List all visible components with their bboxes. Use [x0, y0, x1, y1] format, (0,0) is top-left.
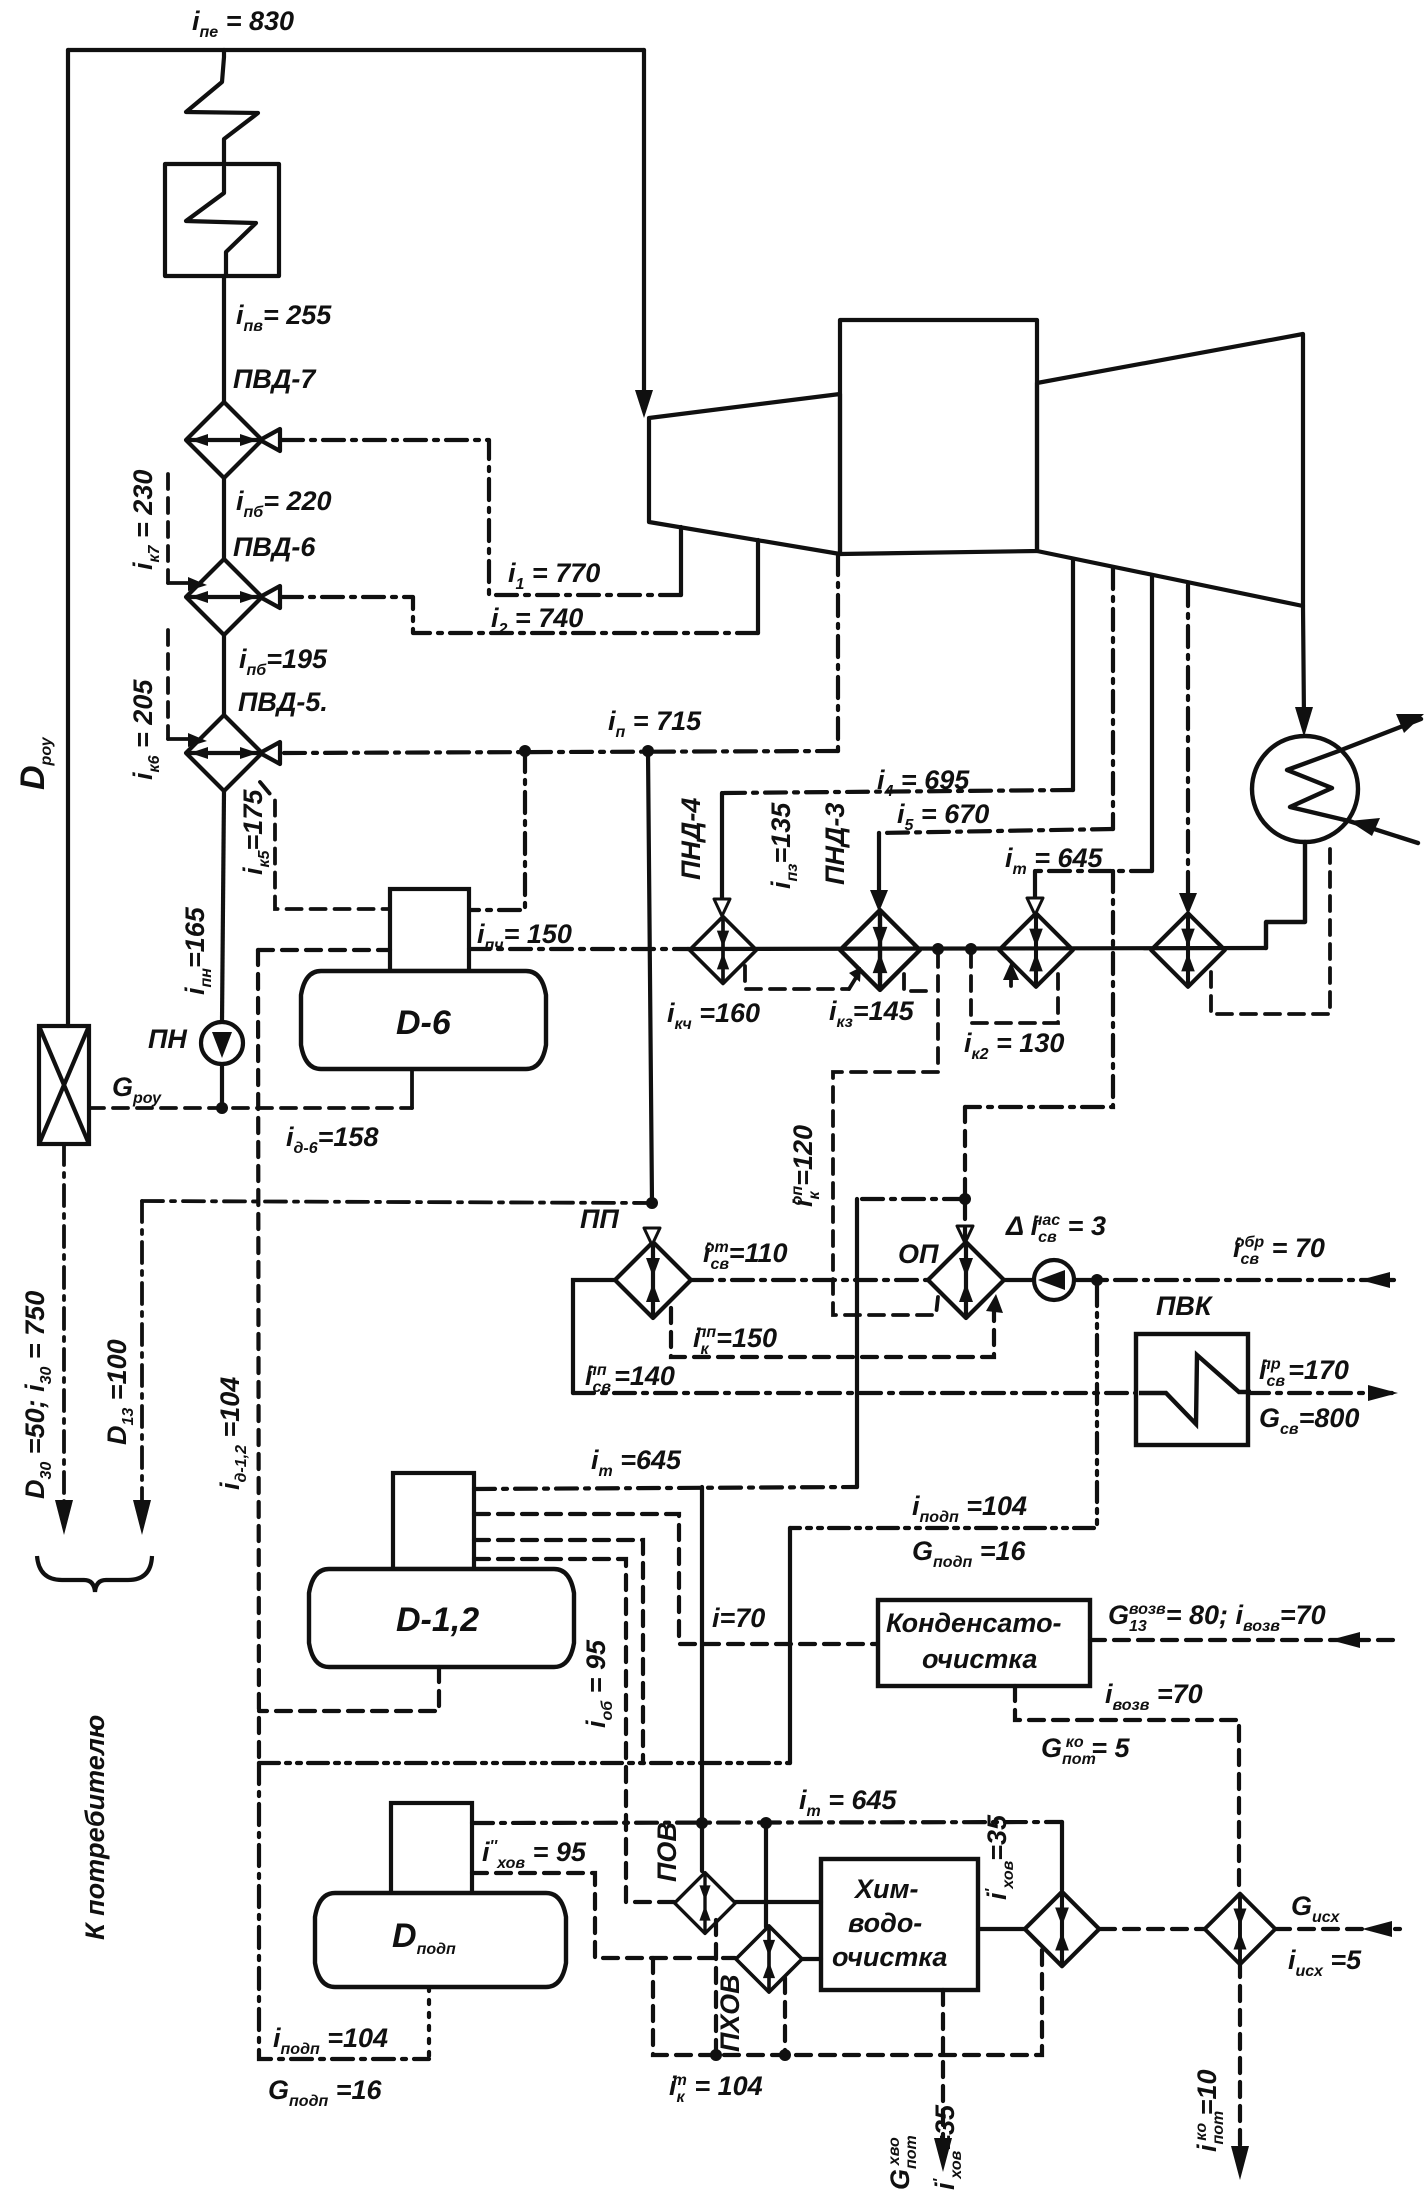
svg-text:ПВД-5.: ПВД-5. — [238, 687, 328, 717]
arrow: steam into turbine — [635, 390, 653, 418]
condensate from condenser to main line — [1266, 842, 1305, 948]
svg-text:iсвпр =170: iсвпр =170 — [1259, 1355, 1349, 1390]
condensate line to Д-1,2 branch — [258, 948, 390, 952]
svg-text:iпотко =10: iпотко =10 — [1192, 2070, 1227, 2153]
raw water line to ИСХ heater — [1100, 1927, 1205, 1931]
drain ПВД-5 to Д-6 iк5=175 — [260, 782, 388, 909]
superheater zigzag inside boiler — [186, 167, 256, 276]
node: steam to ПХОВ — [760, 1817, 772, 1829]
network water ПП to ПВК iсв пп=140 — [573, 1280, 615, 1393]
ОП lower network heater — [928, 1242, 1004, 1318]
node: ОП steam junction — [959, 1193, 971, 1205]
wire: steam into ПНД-4 — [720, 793, 724, 905]
wire: steam into ПНД-3 — [877, 833, 881, 898]
steam branch down to ПОВ — [700, 1487, 704, 1818]
node: iп=715 to ПП — [642, 745, 654, 757]
network water ПП-ОП iсв от=110 — [691, 1278, 928, 1282]
arrow into ВС heater — [1179, 893, 1197, 915]
Дподп bottom outlet — [427, 1987, 431, 2059]
extraction 6 wire iт=645 — [1150, 577, 1154, 871]
Дподп deaerator column — [391, 1803, 472, 1895]
network pump — [1034, 1260, 1074, 1300]
svg-text:очистка: очистка — [832, 1942, 947, 1972]
drains header iк т=104 — [653, 1950, 1042, 2055]
node: makeup junction — [1091, 1274, 1103, 1286]
condensate i=70 from очистка to Д-1,2 — [474, 1514, 878, 1644]
boiler economizer zigzag — [186, 50, 258, 164]
Д-6 deaerator column — [390, 889, 469, 971]
svg-text:Gсв=800: Gсв=800 — [1259, 1403, 1359, 1438]
Д-6 deaerator tank — [301, 971, 546, 1069]
ПВД-6 heater — [186, 559, 280, 635]
svg-text:ПНД-3: ПНД-3 — [820, 803, 850, 885]
wire: feedwater ПВД-5 to pump ПН — [222, 791, 224, 1022]
ПВД-5 heater — [186, 715, 280, 791]
circulating water path through condenser — [1287, 719, 1421, 843]
condensate riser iд-1,2=104 — [258, 950, 259, 1763]
wire: left feedwater downcomer to РОУ — [66, 50, 70, 1026]
drain ПНД-3 iкз=145 — [904, 974, 934, 991]
svg-text:Конденсато-: Конденсато- — [886, 1608, 1062, 1638]
node: drain ОП junction — [932, 943, 944, 955]
extraction line i1=770 to ПВД-7 — [281, 440, 681, 595]
wire: branch toward bottom heaters — [857, 1197, 965, 1201]
ПВД-7 heater — [186, 402, 280, 478]
extraction line iп=715 to ПВД-5 — [281, 751, 838, 753]
Д-1,2 deaerator column — [393, 1473, 474, 1569]
drain ВС heater to condenser — [1211, 849, 1330, 1014]
wire: into ОП — [963, 1204, 967, 1242]
ПНД-4 heater — [690, 917, 757, 984]
turbine IP block — [840, 320, 1037, 554]
svg-text:ПХОВ: ПХОВ — [715, 1974, 745, 2052]
wire: ОП to pump — [1004, 1278, 1034, 1282]
РОУ reducing unit — [39, 1026, 89, 1144]
svg-text:iсвобр = 70: iсвобр = 70 — [1233, 1233, 1325, 1268]
svg-text:ПВД-7: ПВД-7 — [233, 364, 317, 394]
ПВК zigzag — [1139, 1355, 1251, 1424]
svg-text:Gпотхво: Gпотхво — [885, 2135, 920, 2190]
wire: pump to node Gроу — [220, 1064, 224, 1108]
svg-text:D-6: D-6 — [396, 1004, 452, 1042]
svg-text:iсвпп =140: iсвпп =140 — [585, 1361, 675, 1396]
wire: feedwater ПВД-7 to ПВД-6 — [222, 478, 226, 559]
drain cascade ПВД-6 to ПВД-5 — [166, 630, 170, 739]
drain ПНД-4 to ПНД-3 iкч=160 — [745, 966, 849, 989]
ХВО box blowdown — [941, 1990, 945, 2162]
ПОВ heater — [675, 1873, 736, 1934]
svg-text:iсвот=110: iсвот=110 — [703, 1238, 788, 1273]
return condensate G13возв into очистка — [1090, 1638, 1400, 1642]
raw water inlet Gисх — [1275, 1927, 1400, 1931]
arrow into ПНД-3 — [870, 890, 888, 912]
svg-text:Gпотко = 5: Gпотко = 5 — [1041, 1733, 1130, 1768]
turbine LP cylinder — [1037, 334, 1303, 606]
wire: exhaust to condenser — [1303, 606, 1304, 720]
extraction line i4=695 to ПНД-4 — [722, 790, 1073, 793]
svg-text:ПНД-4: ПНД-4 — [676, 798, 706, 880]
svg-text:ПВД-6: ПВД-6 — [233, 532, 316, 562]
makeup return line into Д-1,2 — [474, 1540, 643, 1763]
drain cascade ПВД-7 to ПВД-6 — [166, 474, 170, 583]
wire: steam D13 header down — [140, 1201, 144, 1508]
wire: feedwater ПВД-6 to ПВД-5 — [222, 635, 226, 715]
main steam header iпе=830 — [68, 48, 644, 52]
extraction 4 wire — [1071, 559, 1075, 790]
wire: steam into ПНД-2 — [1033, 871, 1037, 902]
steam branch to ОП and lower heaters — [965, 871, 1113, 1107]
node: steam to ПОВ — [696, 1817, 708, 1829]
node: feedwater / РОУ junction — [216, 1102, 228, 1114]
wire: feedwater from boiler to ПВД-7 — [222, 276, 226, 403]
svg-text:iкоп=120: iкоп=120 — [788, 1125, 823, 1207]
очистка outlet to ИСХ heater iвозв=70 — [1015, 1686, 1239, 1892]
arrow into ПП — [644, 1228, 660, 1245]
svg-text:iкпп=150: iкпп=150 — [693, 1323, 777, 1358]
heated water iоб=95 from ПОВ into Д-1,2 — [474, 1559, 674, 1902]
arrow into ПНД-2 — [1027, 898, 1043, 915]
wire: steam into ХОВ heater — [1060, 1822, 1064, 1890]
svg-text:G13возв= 80; iвозв=70: G13возв= 80; iвозв=70 — [1108, 1600, 1326, 1635]
Дподп deaerator tank — [315, 1893, 566, 1987]
extraction 7 wire to ВС heater — [1186, 585, 1190, 902]
node: ПП steam junction — [646, 1197, 658, 1209]
extraction 5 wire — [1111, 568, 1115, 829]
Конденсато-очистка box — [878, 1600, 1090, 1686]
makeup water riser iподп=104 — [790, 1286, 1097, 1528]
steam header iт=645 lower distribution — [472, 1822, 1062, 1823]
wire: ПОВ to ХВО box — [735, 1900, 821, 1904]
svg-text:водо-: водо- — [848, 1908, 922, 1938]
brace К потребителю — [37, 1556, 152, 1592]
boiler drum box — [165, 164, 279, 276]
condenser — [1252, 714, 1424, 948]
turbine HP cylinder — [649, 394, 840, 554]
drain ПНД-2 iк2=130 — [971, 952, 1058, 1023]
drain ПП iк пп=150 to ОП — [671, 1302, 994, 1357]
svg-text:D13 =100: D13 =100 — [102, 1339, 137, 1445]
ПНД-2 heater — [999, 913, 1073, 987]
svg-text:К потребителю: К потребителю — [80, 1715, 110, 1940]
node: ПОВ drain — [710, 2049, 722, 2061]
ПВК peak boiler box — [1136, 1334, 1248, 1445]
wire: ПХОВ drain — [783, 1978, 787, 2055]
return network water iсв обр=70 — [1074, 1278, 1398, 1282]
svg-text:D-1,2: D-1,2 — [396, 1601, 479, 1639]
wire: ПХОВ to ХВО box — [802, 1957, 821, 1961]
Д-1,2 outlet to riser — [259, 1667, 439, 1711]
wire: steam to Д-6 column — [469, 751, 525, 910]
steam iт=645 to Д-1,2 — [474, 1487, 857, 1489]
svg-text:ОП: ОП — [898, 1239, 939, 1269]
svg-text:i=70: i=70 — [712, 1603, 765, 1633]
riser to Дподп — [259, 1763, 429, 2059]
Хим-водо-очистка box — [821, 1859, 978, 1990]
wire: Gроу line to junction — [89, 1106, 412, 1110]
arrow into ПНД-4 — [714, 899, 730, 916]
extraction line iт=645 to ПНД-2 — [1035, 869, 1152, 873]
wire: РОУ steam D30 down — [62, 1144, 66, 1508]
arrow: exhaust into condenser — [1295, 707, 1313, 737]
main condensate line iпч=150 — [469, 947, 688, 951]
extraction 2 wire from HP — [756, 540, 760, 633]
wire: Д-6 bottom outlet — [410, 1069, 414, 1108]
wire: ХВО box to ХОВ heater — [978, 1927, 1024, 1931]
treated water iхов''=95 into Дподп — [472, 1873, 735, 1958]
ХОВ raw water heater — [1025, 1892, 1099, 1966]
node: iп=715 to Д-6 — [519, 745, 531, 757]
network water line to ПВК — [573, 1391, 1136, 1395]
ВС network heater — [1151, 913, 1225, 987]
feed pump ПН — [201, 1022, 243, 1064]
svg-text:очистка: очистка — [922, 1644, 1037, 1674]
hot network water out iсв пр=170 — [1248, 1391, 1398, 1395]
svg-text:Хим-: Хим- — [853, 1874, 918, 1904]
makeup header y1763 — [259, 1761, 790, 1765]
wire: main steam to turbine — [642, 50, 646, 400]
ПХОВ heater — [736, 1926, 802, 1992]
wire: ПОВ drain — [714, 1920, 718, 2055]
svg-text:ПВК: ПВК — [1156, 1291, 1214, 1321]
svg-text:Δ iсвнас = 3: Δ iсвнас = 3 — [1005, 1211, 1106, 1246]
ПП industrial heater — [615, 1242, 691, 1318]
ИСХ heater drain iпот=10 — [1238, 1962, 1242, 2170]
svg-text:iкт = 104: iкт = 104 — [669, 2071, 763, 2106]
extraction line i5=670 to ПНД-3 — [879, 829, 1113, 833]
svg-text:ПОВ: ПОВ — [652, 1822, 682, 1882]
svg-text:ПП: ПП — [580, 1204, 619, 1234]
arrow into ОП — [957, 1226, 973, 1243]
wire: steam into ПХОВ — [764, 1823, 768, 1927]
extraction 1 wire from HP to i1=770 line — [679, 527, 683, 595]
drain ОП to main line iкоп=120 — [833, 952, 938, 1315]
Д-1,2 deaerator tank — [309, 1569, 574, 1667]
wire: steam down to ПП — [648, 751, 652, 1203]
node: drain ПНД-2 junction — [965, 943, 977, 955]
extraction 3 wire iп=715 from IP — [836, 554, 840, 751]
industrial steam header to ПП — [142, 1201, 652, 1203]
svg-text:ПН: ПН — [148, 1024, 187, 1054]
ПНД-3 heater — [840, 910, 920, 990]
ИСХ raw water heater — [1205, 1894, 1276, 1965]
node: ПХОВ drain — [779, 2049, 791, 2061]
extraction line i2=740 to ПВД-6 — [281, 597, 758, 633]
wire: steam into ПОВ — [700, 1823, 704, 1871]
